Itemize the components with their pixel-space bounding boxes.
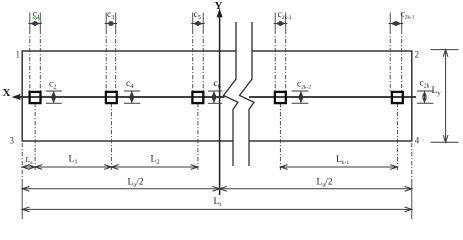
square cutout 3 bbox=[192, 92, 203, 103]
dimension arrow c1 bbox=[28, 23, 42, 25]
svg-text:La/2: La/2 bbox=[128, 178, 144, 189]
square 1 center dash line below bbox=[34, 103, 36, 170]
square 2 center dash line below bbox=[110, 103, 112, 170]
X axis centerline with left arrow bbox=[15, 96, 225, 98]
svg-text:1: 1 bbox=[16, 50, 21, 60]
svg-text:3: 3 bbox=[10, 136, 15, 146]
centerline pair 3 (dash-dot down to square) bbox=[192, 30, 194, 92]
extension line pair 2 (solid top) bbox=[105, 13, 107, 31]
break line right bbox=[240, 22, 255, 166]
Y axis with up arrow bbox=[219, 13, 221, 195]
extension line pair 4 (solid top) bbox=[274, 13, 276, 31]
dimension arrow c2k-1 bbox=[389, 23, 404, 25]
extension line pair 1 (solid top) bbox=[29, 13, 31, 31]
dimension Lk-1 bbox=[280, 166, 397, 168]
dimension arrow c2k bbox=[417, 90, 434, 92]
centerline pair 2 (dash-dot down to square) bbox=[105, 30, 107, 92]
dimension arrow c2k-3 bbox=[274, 23, 288, 25]
plate outline right part (corners 2-4) bbox=[249, 51, 412, 141]
extension line pair 5 (solid top) bbox=[389, 13, 391, 31]
dimension arrow c3 bbox=[105, 23, 118, 25]
square cutout 1 bbox=[30, 92, 41, 103]
right edge extension line bbox=[411, 143, 413, 181]
dimension arrow c2k-2 bbox=[292, 90, 309, 92]
dimension La/2 left bbox=[22, 188, 219, 190]
centerline pair 5 (dash-dot down to square) bbox=[389, 30, 391, 92]
dimension Lt total bbox=[22, 208, 412, 210]
dimension arrow c6 bbox=[208, 90, 223, 92]
square cutout 2 bbox=[106, 92, 117, 103]
square 4 center dash line below bbox=[279, 103, 281, 170]
svg-text:X: X bbox=[3, 87, 11, 99]
dimension arrow c2 bbox=[46, 90, 62, 92]
square cutout 5 bbox=[392, 92, 403, 103]
centerline pair 4 (dash-dot down to square) bbox=[274, 30, 276, 92]
plate outline left part (corners 1-3) bbox=[22, 51, 236, 141]
dimension Ly ticks and arrow bbox=[431, 49, 459, 51]
break line left bbox=[224, 22, 239, 166]
dimension La/2 right bbox=[220, 188, 412, 190]
left edge extension line bbox=[21, 143, 23, 183]
grammar squiggle under c1 bbox=[33, 18, 41, 20]
extension line pair 3 (solid top) bbox=[192, 13, 194, 31]
dimension arrow c5 bbox=[191, 23, 205, 25]
dimension L2 bbox=[111, 166, 197, 168]
square 5 center dash line below bbox=[396, 103, 398, 170]
dimension La bbox=[22, 166, 35, 168]
dimension arrow c4 bbox=[124, 90, 140, 92]
square cutout 4 bbox=[275, 92, 286, 103]
centerline pair 1 (dash-dot down to square) bbox=[29, 30, 31, 92]
square 3 center dash line below bbox=[197, 103, 199, 170]
svg-text:4: 4 bbox=[415, 136, 420, 146]
svg-text:La/2: La/2 bbox=[317, 178, 333, 189]
svg-text:2: 2 bbox=[415, 50, 420, 60]
svg-text:Y: Y bbox=[215, 0, 223, 12]
dimension L1 bbox=[35, 166, 111, 168]
